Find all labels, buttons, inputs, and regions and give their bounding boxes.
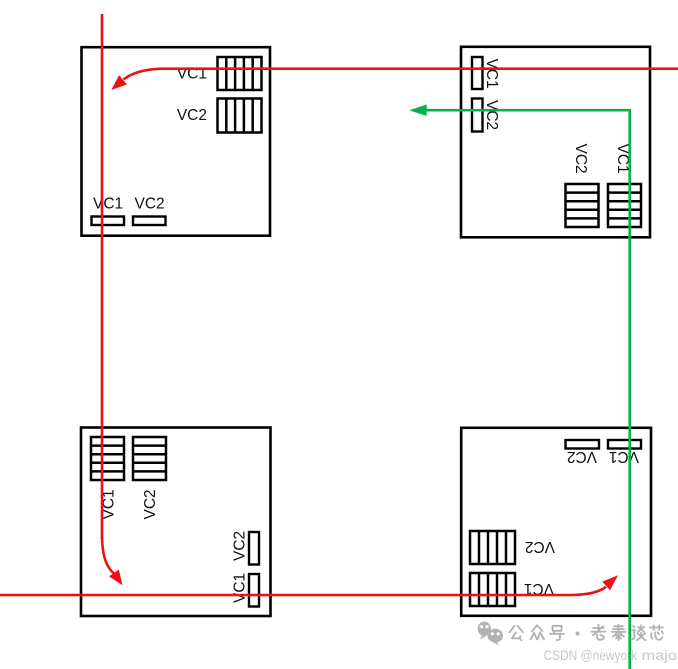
svg-text:VC1: VC1 [483,59,500,89]
svg-text:VC2: VC2 [177,107,207,124]
svg-text:VC2: VC2 [135,196,165,213]
svg-text:VC2: VC2 [572,144,589,174]
svg-text:CSDN @newyork: CSDN @newyork [544,647,638,663]
svg-text:VC2: VC2 [483,100,500,130]
svg-text:major: major [642,647,678,663]
svg-text:VC1: VC1 [93,196,123,213]
svg-text:VC2: VC2 [567,448,597,465]
svg-text:VC1: VC1 [609,448,639,465]
svg-text:VC2: VC2 [525,538,555,555]
svg-text:VC1: VC1 [232,573,249,603]
svg-text:VC2: VC2 [232,531,249,561]
svg-text:VC2: VC2 [142,489,159,519]
